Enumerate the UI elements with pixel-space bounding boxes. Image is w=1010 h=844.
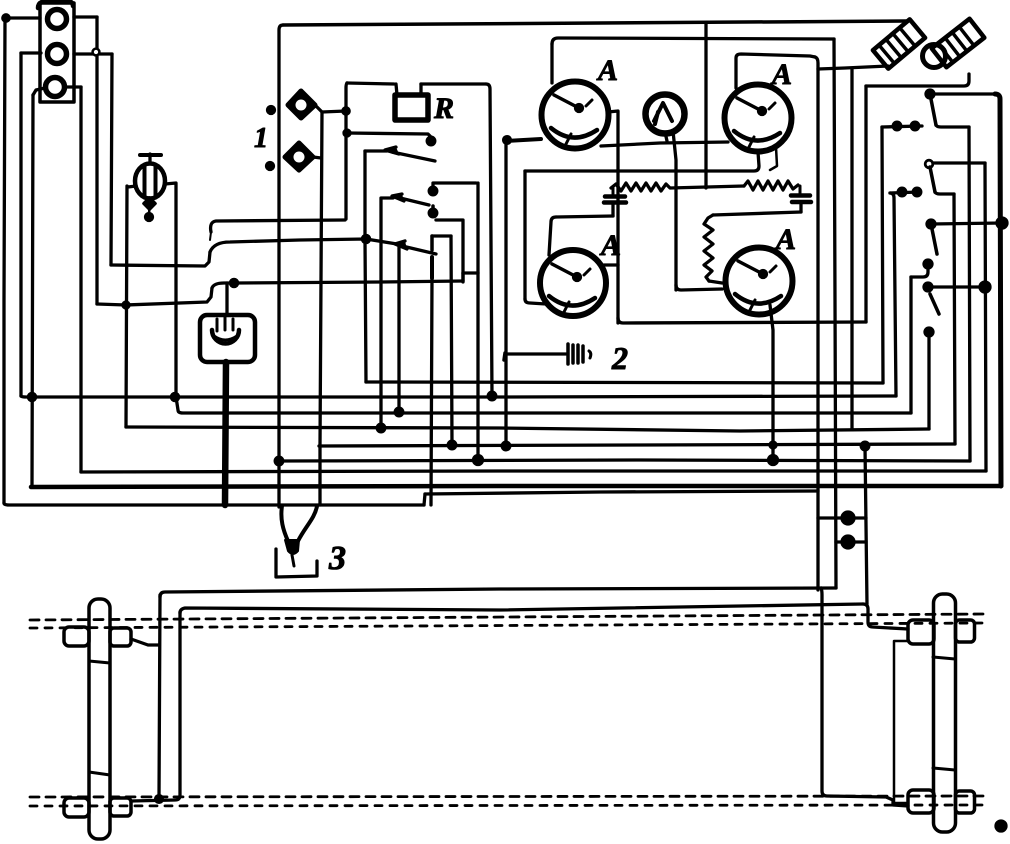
vertical x451 xyxy=(451,236,452,445)
wire lamp1 right into x618 xyxy=(608,111,618,323)
vertical x706 from top xyxy=(704,23,707,188)
svg-text:A: A xyxy=(774,223,796,256)
open circle no-connection on x97 xyxy=(93,49,100,56)
wire W1 y590 xyxy=(160,588,836,597)
bus B4 y445 xyxy=(319,444,955,446)
blade D pivot dot xyxy=(924,283,932,291)
plug 3 tip xyxy=(285,540,299,554)
switch 1 lower diamond xyxy=(285,143,313,170)
vertical x985 xyxy=(985,163,986,471)
horn cup inner arc xyxy=(214,336,237,340)
connector dot 1 xyxy=(842,512,854,524)
lamp A2 chin tick xyxy=(749,137,754,147)
left axle upper left tab xyxy=(64,627,89,646)
wire y322 continues (join) xyxy=(865,315,867,322)
connector stub dot1 xyxy=(818,516,842,519)
bus B2 y413 xyxy=(176,397,911,413)
lamp A4 filament dot xyxy=(760,271,767,278)
lamp A3 chin tick xyxy=(564,302,569,312)
vertical x399 xyxy=(397,246,400,412)
capacitor C1 top stem xyxy=(612,188,615,194)
plug 3 left prong xyxy=(281,506,288,541)
bus B8 y505 xyxy=(4,503,424,505)
lamp circle top of cluster xyxy=(48,10,67,29)
contact C dot xyxy=(924,260,932,268)
lamp A2 smile arc xyxy=(734,131,780,141)
vertical x866 upper xyxy=(864,86,867,322)
plug 3 right prong xyxy=(298,506,317,541)
right switch blade A pivot dot xyxy=(926,90,934,98)
right axle bar cross line 2 xyxy=(933,768,955,770)
tail light cluster body xyxy=(40,3,74,102)
tick up from line A end xyxy=(461,273,464,281)
component 2 coil end curl xyxy=(589,351,591,358)
corner dot x506 xyxy=(504,137,511,144)
wire upper diamond to x321 and x346 xyxy=(315,105,346,112)
hook stub below dot xyxy=(431,206,435,216)
right switch open contact dot xyxy=(925,160,933,168)
vertical x818 from lamp2 rect xyxy=(815,57,818,590)
blade 1 arrowhead xyxy=(385,147,399,154)
wire middle circle left xyxy=(21,51,41,54)
right switch wire y94 xyxy=(930,92,995,95)
wire y224 xyxy=(931,223,1002,224)
right axle lower left tab xyxy=(908,790,934,813)
svg-text:R: R xyxy=(433,92,454,125)
wire C1 left y216 xyxy=(556,216,613,217)
wire vertical x81 xyxy=(79,87,82,472)
wire y287 xyxy=(928,285,985,288)
vertical x346 xyxy=(346,83,347,219)
right switch blade D xyxy=(930,294,939,314)
contact 2 lower hook dot xyxy=(429,209,437,217)
dot start contact1 xyxy=(344,130,350,136)
plug 3 socket box xyxy=(276,549,317,577)
right axle lower right tab xyxy=(956,791,975,813)
vertical x866 lower to axle xyxy=(865,446,867,604)
left axle bar cross line 1 xyxy=(89,661,110,663)
lamp A4 filament tick xyxy=(770,266,776,272)
dashed rail line upper 1 xyxy=(30,614,986,620)
dashed rail line upper 2 xyxy=(30,623,986,628)
line L1 y221 xyxy=(211,220,345,232)
wire y171 lamp2 bottom to x525 xyxy=(525,152,759,171)
lamp A3 smile arc xyxy=(549,296,595,306)
plug 3 tip tick xyxy=(292,555,294,566)
vertical x365 xyxy=(365,151,366,382)
R loop left horizontal y83 xyxy=(347,83,394,84)
fuse box left side x126 xyxy=(126,186,136,427)
plug ring circle xyxy=(923,45,946,68)
lamp A3 filament tick xyxy=(584,269,590,275)
capacitor C1 bottom stem xyxy=(611,204,614,216)
svg-text:A: A xyxy=(770,58,792,91)
switch 1 upper diamond hole xyxy=(296,100,307,111)
lamp A1 filament tick xyxy=(586,100,592,106)
bus B0 y382 xyxy=(366,382,883,383)
contact pair 2 line xyxy=(890,192,920,193)
wire W2 y607 xyxy=(180,604,863,613)
vertical x834 from inner line xyxy=(834,39,836,588)
svg-text:1: 1 xyxy=(254,123,268,154)
component 2 coil bars xyxy=(568,344,583,364)
fuse bottom stem xyxy=(149,199,150,214)
small lamp stem xyxy=(665,131,676,290)
contact line 2 y183 xyxy=(433,183,476,189)
wire lamp1 left y138 xyxy=(505,139,541,141)
wire top circle left xyxy=(5,16,40,19)
big junction dot x985 y287 xyxy=(980,282,990,292)
horn cup xyxy=(212,330,239,344)
wire middle circle right xyxy=(74,52,112,55)
junction dot lower left axle xyxy=(156,796,163,803)
lamp A1 filament dot xyxy=(576,105,583,112)
blade 1 with arrow xyxy=(365,151,435,161)
contact C dogleg xyxy=(911,266,928,277)
capacitor C1 bars xyxy=(604,197,626,203)
lamp circle middle of cluster xyxy=(48,45,67,64)
right axle feed jog from W1 xyxy=(821,588,908,806)
horn stem top xyxy=(225,283,228,315)
big junction dot x1002 xyxy=(997,218,1007,228)
contact 3 tick bar xyxy=(430,257,434,278)
contact pair 2 dots xyxy=(898,188,906,196)
droop line to blade3 xyxy=(210,239,397,252)
horn box xyxy=(200,315,255,362)
vertical x478 xyxy=(476,183,479,460)
switch 1 upper diamond xyxy=(288,91,315,118)
dot end contact1 xyxy=(427,137,435,145)
wire lamp1 bottom to lamp2 bottom y143 xyxy=(601,142,728,146)
headlamp A2 circle xyxy=(725,85,792,152)
wire y163 xyxy=(933,161,985,164)
wire vertical x97 xyxy=(95,17,98,304)
right axle inner bracket xyxy=(894,641,908,803)
stray dot bottom right xyxy=(996,821,1006,831)
capacitor C2 top stem xyxy=(799,186,802,193)
lamp A2 filament tick xyxy=(769,103,775,109)
left axle upper right tab xyxy=(110,628,131,646)
lamp A2 filament diagonal xyxy=(737,98,760,110)
contact pair 1 dots xyxy=(893,122,901,130)
connector vertical x818 lower part junction xyxy=(817,491,820,590)
vertical x506 xyxy=(504,140,507,446)
blade 2 arrowhead xyxy=(392,194,404,201)
fuse inner bar right xyxy=(154,167,158,195)
line A upper y282 xyxy=(212,281,463,288)
lamp A3 right wire to x618 corner xyxy=(604,263,618,266)
blade 2 with arrow xyxy=(396,197,429,205)
vertical x882 xyxy=(882,127,883,383)
vertical x955 xyxy=(954,194,955,444)
capacitor C2 bars xyxy=(791,196,811,203)
wire lower diamond right xyxy=(313,157,321,158)
right axle bar xyxy=(934,594,956,832)
svg-text:A: A xyxy=(599,229,621,262)
bus B5 y461 xyxy=(279,460,970,461)
lamp A4 right down wire xyxy=(770,305,773,460)
wire bottom circle right xyxy=(67,85,81,88)
big vertical x279 xyxy=(279,25,283,507)
battery cell 1 xyxy=(873,19,925,68)
vertical x431 to B8 xyxy=(431,278,432,505)
left axle bar cross line 2 xyxy=(89,772,110,775)
headlamp A3 circle xyxy=(540,250,606,316)
wire battery cell1 bottom y69 xyxy=(818,66,888,69)
horn tick 2 xyxy=(224,317,227,330)
svg-text:A: A xyxy=(596,54,618,87)
R box left notch xyxy=(396,84,397,95)
junction dot x366 y239 xyxy=(362,235,369,242)
bus B7 y487 bold xyxy=(31,486,1001,487)
fuse top stem xyxy=(148,154,151,163)
right switch blade B xyxy=(930,167,935,192)
dogleg from contact2 hook xyxy=(436,220,463,282)
contact D dot xyxy=(925,328,933,336)
bus B6 y472 xyxy=(81,471,986,472)
connector stub dot2 xyxy=(836,540,842,543)
connector stub dot2 right xyxy=(854,540,866,543)
right switch blade A xyxy=(930,94,936,125)
fuse top tee bar xyxy=(140,153,161,157)
lamp A1 smile arc xyxy=(551,128,597,138)
contact 3 stub down xyxy=(430,236,434,250)
vertical into lamp1 top xyxy=(550,44,553,83)
vertical x525 xyxy=(523,171,526,299)
wire bottom circle left hook xyxy=(33,88,45,95)
blade 3 arrowhead xyxy=(395,241,407,249)
right axle upper right tab xyxy=(956,620,975,642)
contact line 3 y235 xyxy=(432,234,451,237)
lamp A2 rect top xyxy=(736,54,815,88)
stub to lamp4 rim xyxy=(709,281,722,283)
blade B tail wire xyxy=(935,192,954,194)
wire vertical x33 xyxy=(32,95,33,487)
fuse box right side x176 xyxy=(165,183,176,397)
top boundary line xyxy=(283,21,906,25)
fuse pendant diamond xyxy=(144,198,155,209)
line y493 xyxy=(425,491,818,494)
left axle lower left tab xyxy=(64,798,89,817)
wire battery cell2 bottom y86 xyxy=(866,74,969,86)
lamp A1 chin tick xyxy=(566,134,571,144)
vertical x894 xyxy=(890,193,896,396)
right axle feed jog from W2 xyxy=(863,604,908,629)
lamp A4 chin tick xyxy=(750,300,755,310)
blade 2 feed xyxy=(381,198,393,428)
vertical x321 xyxy=(320,112,322,505)
R box right notch xyxy=(419,84,422,95)
capacitor C2 bottom stem xyxy=(799,203,802,212)
resistor zigzag 2 xyxy=(744,181,798,190)
left axle bar xyxy=(89,599,110,839)
wire C2 left y214 xyxy=(713,212,801,215)
left axle upper tab wire xyxy=(131,639,159,645)
right switch blade C xyxy=(931,224,937,254)
bold vertical x1000 xyxy=(995,94,1001,486)
horn tick 3 xyxy=(232,319,235,330)
left axle feed vertical x159 xyxy=(159,595,160,799)
wire vertical x21 xyxy=(19,53,22,396)
junction dot left end xyxy=(3,15,9,21)
component 2 wire xyxy=(506,352,566,355)
fuse body xyxy=(135,164,165,199)
svg-text:2: 2 xyxy=(611,340,628,376)
blade A tail wire xyxy=(936,125,969,127)
lamp A3 filament dot xyxy=(574,274,581,281)
lamp A2 filament dot xyxy=(759,108,766,115)
dot left of upper diamond xyxy=(268,107,275,114)
connector dot 2 xyxy=(842,536,854,548)
tail light cluster top cap xyxy=(38,1,73,8)
blade 3 with arrow xyxy=(398,245,436,254)
left axle lower right tab xyxy=(110,798,131,816)
lamp A4 smile arc xyxy=(735,294,781,304)
vertical x970 xyxy=(969,127,970,461)
vertical x549 to lamp3 xyxy=(549,217,556,255)
lamp A1 filament diagonal xyxy=(554,95,577,107)
headlamp A1 circle xyxy=(542,82,609,149)
lamp2 lower right stub xyxy=(770,147,777,170)
bus B3 y428 xyxy=(126,427,929,431)
vertical x911 xyxy=(909,277,912,413)
dot left of lower diamond xyxy=(267,163,274,170)
wire y323 lamps to x866 xyxy=(618,318,866,323)
lamp A4 filament diagonal xyxy=(738,261,761,273)
wire top circle right xyxy=(74,15,97,18)
vertical resistor zigzag x709 xyxy=(704,215,713,281)
dogleg horizontal to x478 xyxy=(463,271,478,274)
bus B1 y397 xyxy=(21,396,896,397)
battery cell 2 xyxy=(932,19,985,67)
R loop right horizontal y84 xyxy=(421,82,486,85)
horn bold lead down xyxy=(225,362,226,505)
inner top line y38 xyxy=(552,38,834,44)
right switch blade C pivot dot xyxy=(927,220,935,228)
resistor R box xyxy=(395,95,428,120)
connector stub dot1 right xyxy=(854,516,866,519)
right axle bar cross line 1 xyxy=(933,657,955,659)
dashed rail line lower 2 xyxy=(30,805,986,806)
B8 step up xyxy=(424,494,425,505)
junction dot x346 y111 xyxy=(343,108,349,114)
dot contact2 xyxy=(429,187,437,195)
link L1 to jog xyxy=(210,232,211,240)
wire vertical x112 xyxy=(111,54,112,265)
horn tick 1 xyxy=(216,319,219,331)
lamp A3 filament diagonal xyxy=(552,264,575,276)
small lamp filament xyxy=(654,103,672,124)
fuse feed line y266 xyxy=(111,252,210,266)
wire y290 small lamp stem to lamp4 xyxy=(676,285,722,290)
junction dot x126 y305 xyxy=(123,302,129,308)
contact line 1 y133 xyxy=(347,133,431,137)
vertical x852 xyxy=(850,69,853,429)
small lamp circle xyxy=(646,95,685,134)
lamp circle bottom of cluster xyxy=(46,78,65,97)
line A lower y305 xyxy=(97,288,212,305)
junction dot horn feed xyxy=(230,279,237,286)
fuse pendant end blob xyxy=(146,214,153,221)
left axle lower wire xyxy=(131,612,180,801)
svg-text:3: 3 xyxy=(328,540,346,577)
fuse inner bar left xyxy=(143,167,147,195)
headlamp A4 circle xyxy=(726,248,793,315)
wire left outer vertical x4 xyxy=(4,18,5,503)
component 2 wire start hook xyxy=(504,353,505,360)
switch 1 lower diamond hole xyxy=(294,152,305,163)
junction dots on buses xyxy=(28,393,35,400)
right axle upper left tab xyxy=(908,620,934,644)
vertical x929 xyxy=(927,334,930,429)
resistor zigzag line y187 xyxy=(611,183,744,191)
vertical x490 xyxy=(486,84,492,396)
wire into lamp3 left y303 xyxy=(525,299,546,304)
dashed rail line lower 1 xyxy=(30,796,986,797)
contact pair 1 line xyxy=(882,126,922,127)
